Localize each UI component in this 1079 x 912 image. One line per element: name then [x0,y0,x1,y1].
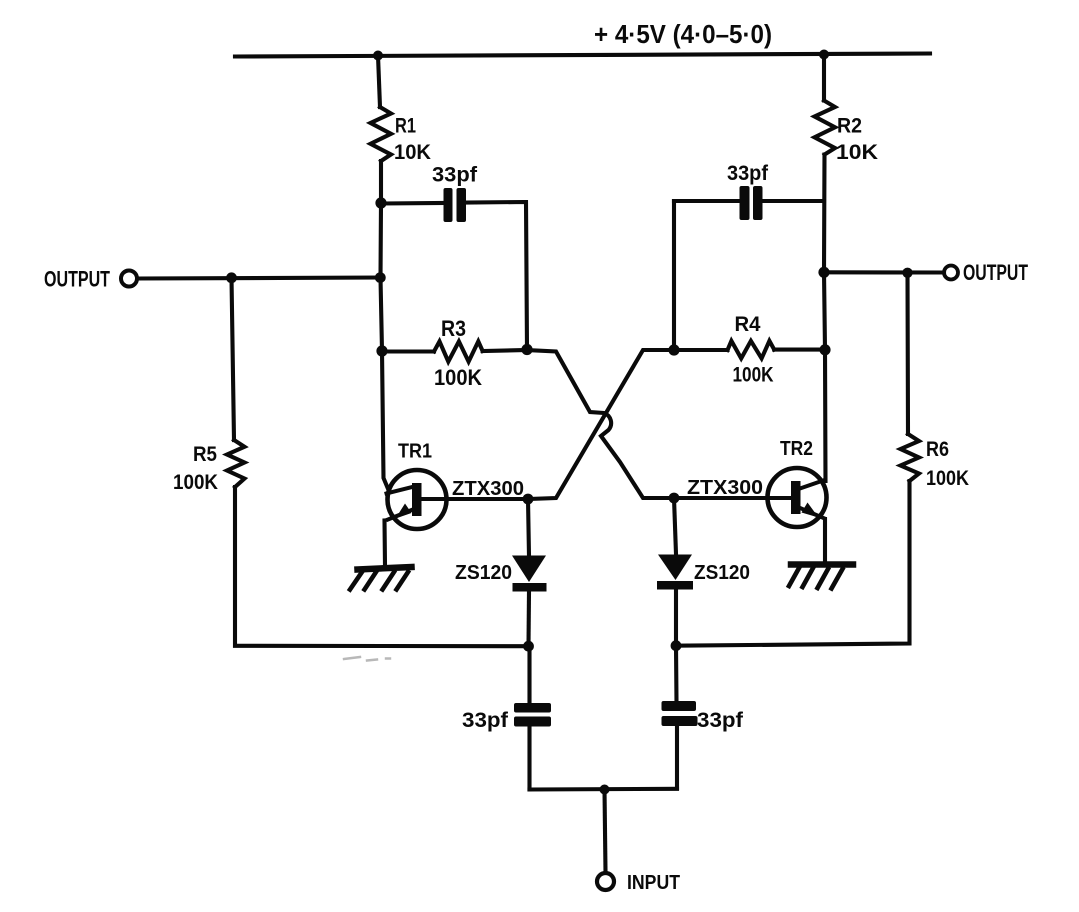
wire: TR2 emitter to ground [823,519,827,562]
wire: rail down to R2 [822,55,826,101]
svg-text:100K: 100K [733,364,774,387]
wire: C4 top lead [674,646,679,702]
terminal: right OUTPUT circle [944,266,958,280]
svg-text:R1: R1 [395,115,416,138]
wire: R1 bottom to cap node [379,161,383,203]
transistor TR1 circle [388,470,447,529]
wire: R4 left lead [674,348,728,352]
wire: right diode top lead [674,498,676,554]
svg-text:33pf: 33pf [432,164,478,187]
svg-text:100K: 100K [173,471,218,494]
node: left diode / C3 junction [523,641,534,652]
svg-text:ZS120: ZS120 [455,562,512,584]
svg-text:33pf: 33pf [727,162,769,185]
ground symbol right: hatches [789,568,843,589]
svg-text:ZTX300: ZTX300 [687,477,763,499]
svg-text:ZTX300: ZTX300 [452,478,524,500]
wire: R3 left lead [382,349,434,353]
ground symbol left: bar [358,567,412,570]
wire: C2 right lead [763,199,825,203]
capacitor C1 33pf right plate [457,188,467,222]
wire: C3 top lead [527,646,531,704]
node: OUTPUT on collector line [375,272,386,283]
svg-text:10K: 10K [836,141,878,164]
svg-text:TR2: TR2 [780,438,813,460]
diode D2 ZS120 triangle [658,555,692,581]
wire: R6 bottom to corner and left to right diode node [676,481,910,646]
capacitor C3 33pf bottom plate [514,717,551,727]
wire: C1 left lead [381,201,445,206]
wire: +4.5V power rail [235,54,930,57]
svg-text:33pf: 33pf [462,709,509,732]
diode D1 ZS120 cathode bar [513,583,547,592]
transistor TR2 circle [768,468,827,527]
terminal: left OUTPUT circle [121,271,137,287]
wire: C2 left lead [674,199,740,203]
node: TR2 base / right diode junction [669,493,680,504]
wire: R2 bottom to right collector chain [824,155,826,482]
resistor R2 10K (vertical zigzag) [815,101,836,155]
svg-text:33pf: 33pf [697,709,744,732]
transistor TR1 emitter stroke [388,509,414,520]
diode D2 ZS120 cathode bar [657,581,693,590]
resistor R4 100K (horizontal zigzag) [728,341,775,359]
node: right diode / C4 junction [671,640,682,651]
capacitor C4 33pf bottom plate [662,716,698,726]
svg-text:OUTPUT: OUTPUT [44,267,110,292]
wire: left diode bottom lead [526,591,531,646]
transistor TR2 emitter arrow [802,503,819,518]
wire: C4 bottom lead to bottom bus [675,726,679,788]
node: OUTPUT / R6 junction [902,268,912,278]
wire: cross-coupling TR1 base to R4 (straight diagonal) [528,350,674,499]
node: R4 left junction [668,344,679,355]
node: OUTPUT / R5 junction [226,272,237,283]
wire: left OUTPUT to collector line [138,278,381,279]
node: TR1 base / left diode junction [523,494,534,505]
transistor TR2 emitter stroke [800,508,824,518]
transistor TR2 base bar [791,481,801,514]
resistor R6 100K (vertical zigzag) [901,434,920,481]
ground symbol right: bar [791,561,853,568]
node: right collector / OUTPUT junction [818,267,829,278]
svg-text:INPUT: INPUT [627,872,680,894]
capacitor C2 33pf left plate [740,186,750,220]
artifact: faint smudge under left bus [344,657,390,661]
ground symbol left: hatches [350,572,408,590]
capacitor C2 33pf right plate [753,186,763,220]
node: rail to R2 junction [819,50,829,60]
wire: left diode top lead [528,499,529,556]
wire: C3 bottom lead to bottom bus [527,727,531,790]
wire: C1 right lead to corner and down [466,202,527,349]
wire: INPUT lead down [605,790,606,872]
wire: TR1 base lead [419,497,528,501]
wire: R6 top lead [905,273,910,434]
node: left collector / C1 junction [375,197,386,208]
svg-text:OUTPUT: OUTPUT [963,260,1028,285]
svg-text:R3: R3 [441,316,466,341]
transistor TR1 base bar [412,483,422,516]
resistor R3 100K (horizontal zigzag) [434,341,483,361]
wire: C2 left corner down to R4 [672,201,676,350]
svg-text:R5: R5 [193,443,217,466]
wire: R5 top lead [232,278,235,440]
svg-text:R4: R4 [735,313,761,336]
svg-text:R6: R6 [926,438,949,461]
diode D1 ZS120 triangle [512,556,546,583]
svg-text:100K: 100K [434,365,482,390]
node: R3 right junction [521,344,532,355]
svg-text:100K: 100K [926,467,969,490]
wire: bottom bus [530,787,678,792]
wire: cross-coupling R3 to TR2 base (with hop) [527,350,674,498]
transistor TR2 collector stroke [800,480,825,489]
wire: R4 right lead [774,348,825,352]
svg-text:TR1: TR1 [398,441,432,463]
capacitor C3 33pf top plate [514,703,551,713]
transistor TR1 emitter arrow [396,504,412,519]
node: rail to R1 junction [373,51,383,61]
wire: left collector vertical down to TR1 [381,203,389,490]
svg-text:ZS120: ZS120 [694,562,750,584]
wire: TR1 emitter to ground [382,521,387,567]
wire: right OUTPUT wire [824,270,944,274]
wire: TR2 base lead [674,496,794,500]
capacitor C1 33pf left plate [444,188,453,222]
wire: R3 right lead [483,350,527,351]
resistor R1 10K (vertical zigzag) [371,107,392,161]
node: R3 left junction [376,345,387,356]
node: INPUT junction [600,785,610,795]
svg-text:10K: 10K [394,141,431,164]
node: R4 right junction [819,344,830,355]
wire: R5 bottom to corner and right to left diode node [235,487,529,646]
svg-text:R2: R2 [837,115,862,138]
resistor R5 100K (vertical zigzag) [227,440,245,487]
wire: rail down to R1 [378,56,380,108]
terminal: INPUT circle [597,873,614,890]
capacitor C4 33pf top plate [662,701,697,711]
wire: right diode bottom lead [674,590,678,646]
transistor TR1 collector stroke [387,487,415,494]
svg-text:+ 4·5V (4·0–5·0): + 4·5V (4·0–5·0) [594,19,772,49]
